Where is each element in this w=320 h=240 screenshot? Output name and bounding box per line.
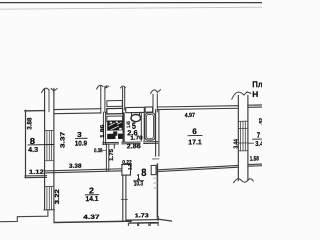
room 8 bottom wall <box>25 176 47 178</box>
svg-text:14.1: 14.1 <box>85 196 98 203</box>
kitchen nook wall <box>106 144 108 171</box>
room 6 label bar <box>188 134 202 136</box>
toilet/bath partition wall <box>141 112 144 141</box>
corridor left wall <box>121 175 127 221</box>
room 3 label bar <box>76 137 88 139</box>
svg-text:1.45: 1.45 <box>126 121 132 128</box>
svg-text:1.73: 1.73 <box>135 213 149 219</box>
svg-text:2.86: 2.86 <box>127 143 141 150</box>
svg-text:1.70: 1.70 <box>130 135 143 141</box>
toilet tank <box>132 113 140 116</box>
top outer wall segment B <box>158 106 239 110</box>
toilet room left wall band <box>122 113 124 141</box>
top outer wall segment A2 <box>54 109 101 114</box>
dark vent box lower block right <box>118 134 123 139</box>
corridor right wall lower <box>156 164 158 217</box>
page top rule light <box>0 7 262 9</box>
wall box 3 <box>145 107 152 112</box>
top outer wall segment A1 <box>25 110 45 112</box>
entry side wall L <box>157 217 171 222</box>
chimney E body <box>45 88 54 209</box>
chimney E break symbol top <box>42 88 58 95</box>
dark vent box upper block <box>107 120 122 130</box>
boundary outline bottom-left <box>0 210 48 222</box>
sanitary block bottom wall <box>103 142 158 145</box>
chimney E hatch band 1 <box>45 130 54 160</box>
svg-text:3.22: 3.22 <box>55 188 61 204</box>
room 2 label bar <box>85 194 99 196</box>
dim 0.38 leader tick <box>103 149 107 151</box>
page background <box>0 0 262 226</box>
bathtub <box>145 113 155 140</box>
vent shaft B <box>121 86 126 110</box>
room 6 bottom wall <box>158 165 239 171</box>
chimney E mid flue line <box>48 90 50 112</box>
corridor bottom wall <box>127 220 159 223</box>
svg-text:1.2: 1.2 <box>127 163 133 169</box>
room 8 label bar <box>28 144 54 146</box>
svg-text:1.58: 1.58 <box>250 156 259 163</box>
svg-text:0.38: 0.38 <box>94 148 102 154</box>
svg-text:3.4: 3.4 <box>255 141 262 148</box>
boundary vertical below chimney E <box>53 210 55 223</box>
corridor wall hatch ticks <box>154 178 158 188</box>
wall box r3 (san cabin top wall) <box>107 116 123 122</box>
top outer wall segment C <box>248 105 262 107</box>
svg-text:10.3: 10.3 <box>134 180 144 187</box>
chimney E hatch band 2 <box>44 186 54 210</box>
chimney D break symbol top <box>232 92 251 99</box>
wall box 2 (right of shaft B) <box>126 107 145 112</box>
dark vent box lower block left <box>107 134 115 139</box>
outer left wall <box>25 110 27 177</box>
chimney D break squiggle bottom <box>234 179 254 183</box>
vent shaft C <box>151 90 161 112</box>
room 7 label bar <box>253 138 262 140</box>
svg-text:7: 7 <box>257 131 261 140</box>
svg-text:1.86: 1.86 <box>100 124 106 138</box>
svg-text:3.38: 3.38 <box>69 164 82 170</box>
room 7 leader line <box>248 142 254 144</box>
door pier box a <box>122 164 131 175</box>
entry porch boxes <box>128 223 158 227</box>
svg-text:17.1: 17.1 <box>188 139 202 146</box>
svg-text:Пл: Пл <box>252 79 262 89</box>
wall box r2 (on wall between shafts) <box>107 108 123 114</box>
sanitary block left wall <box>103 112 105 144</box>
room 3 bottom wall <box>45 169 122 173</box>
svg-text:4.97: 4.97 <box>185 113 196 119</box>
page top rule dark <box>0 2 262 4</box>
svg-text:2: 2 <box>89 185 94 195</box>
door pier box b <box>151 165 156 174</box>
svg-text:Н: Н <box>252 90 258 99</box>
dark vent box white hatch <box>109 122 121 129</box>
room 1 label bar <box>134 180 144 182</box>
svg-text:10.9: 10.9 <box>75 140 87 147</box>
svg-text:3.44: 3.44 <box>234 138 240 148</box>
room 7 bottom wall <box>248 164 262 166</box>
svg-text:6: 6 <box>192 127 197 136</box>
room 2 bottom wall <box>54 221 131 222</box>
chimney D crossing tick <box>238 127 248 129</box>
svg-text:3.37: 3.37 <box>61 131 67 149</box>
svg-text:4.3: 4.3 <box>28 147 38 154</box>
corridor right wall upper <box>153 110 160 159</box>
svg-text:8: 8 <box>141 167 146 179</box>
door tick below san wall <box>113 145 115 149</box>
toilet bowl <box>131 114 141 121</box>
svg-text:3.88: 3.88 <box>26 117 33 129</box>
dark vent box middle square <box>113 131 117 135</box>
chimney D hatch band <box>238 121 248 151</box>
svg-text:3: 3 <box>77 130 82 139</box>
vent shaft A <box>97 85 109 112</box>
svg-text:1.75: 1.75 <box>109 149 115 161</box>
chimney D body <box>238 95 248 180</box>
wall box r1 (above wall between shafts) <box>107 100 122 106</box>
svg-text:1.12: 1.12 <box>29 170 45 176</box>
svg-text:4.37: 4.37 <box>83 215 100 221</box>
svg-text:.52: .52 <box>258 118 262 125</box>
